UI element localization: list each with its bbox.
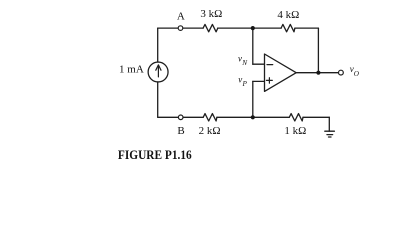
wire 4k to right corner xyxy=(295,27,319,29)
wire 1k to ground corner xyxy=(303,116,329,118)
wire vP vertical from bottom junction xyxy=(252,81,254,117)
svg-text:B: B xyxy=(177,125,184,137)
wire ground vertical stem xyxy=(328,117,330,131)
svg-text:FIGURE P1.16: FIGURE P1.16 xyxy=(118,148,192,162)
wire vP horizontal to op-amp xyxy=(253,80,265,82)
wire vN vertical from top junction xyxy=(252,28,254,64)
svg-text:N: N xyxy=(241,59,248,67)
current source arrow xyxy=(157,65,159,77)
junction dot top (node vN net) xyxy=(251,26,255,30)
op-amp plus sign xyxy=(266,79,272,81)
resistor 3 kOhm xyxy=(203,24,218,31)
svg-text:1 mA: 1 mA xyxy=(119,63,144,75)
wire op-amp output xyxy=(296,72,338,74)
current source I 1mA circle xyxy=(148,62,168,82)
wire left vertical lower xyxy=(157,82,159,117)
node B terminal circle xyxy=(178,115,183,120)
node A terminal circle xyxy=(178,26,183,31)
wire node A to 3k xyxy=(183,27,203,29)
svg-text:A: A xyxy=(177,11,185,23)
resistor 2 kOhm xyxy=(203,114,217,121)
svg-text:2 kΩ: 2 kΩ xyxy=(199,125,221,137)
wire bottom left segment xyxy=(158,116,178,118)
wire left vertical upper xyxy=(157,28,159,62)
junction dot output xyxy=(316,71,320,75)
wire 2k to 1k xyxy=(217,116,289,118)
resistor 4 kOhm xyxy=(281,24,295,31)
terminal circle vO xyxy=(339,70,344,75)
wire 3k to 4k xyxy=(218,27,281,29)
svg-text:1 kΩ: 1 kΩ xyxy=(284,125,306,137)
resistor 1 kOhm xyxy=(289,114,303,121)
wire right vertical feedback xyxy=(317,28,319,73)
wire node B to 2k xyxy=(183,116,203,118)
svg-text:O: O xyxy=(354,70,360,78)
svg-text:4 kΩ: 4 kΩ xyxy=(277,9,299,21)
wire vN horizontal to op-amp xyxy=(253,63,265,65)
op-amp minus sign xyxy=(267,64,273,66)
junction dot bottom (node vP net) xyxy=(251,115,255,119)
ground symbol xyxy=(325,130,335,132)
op-amp U1 triangle xyxy=(265,54,297,91)
svg-text:P: P xyxy=(242,80,248,88)
svg-text:3 kΩ: 3 kΩ xyxy=(200,8,222,20)
wire top left segment xyxy=(158,27,178,29)
